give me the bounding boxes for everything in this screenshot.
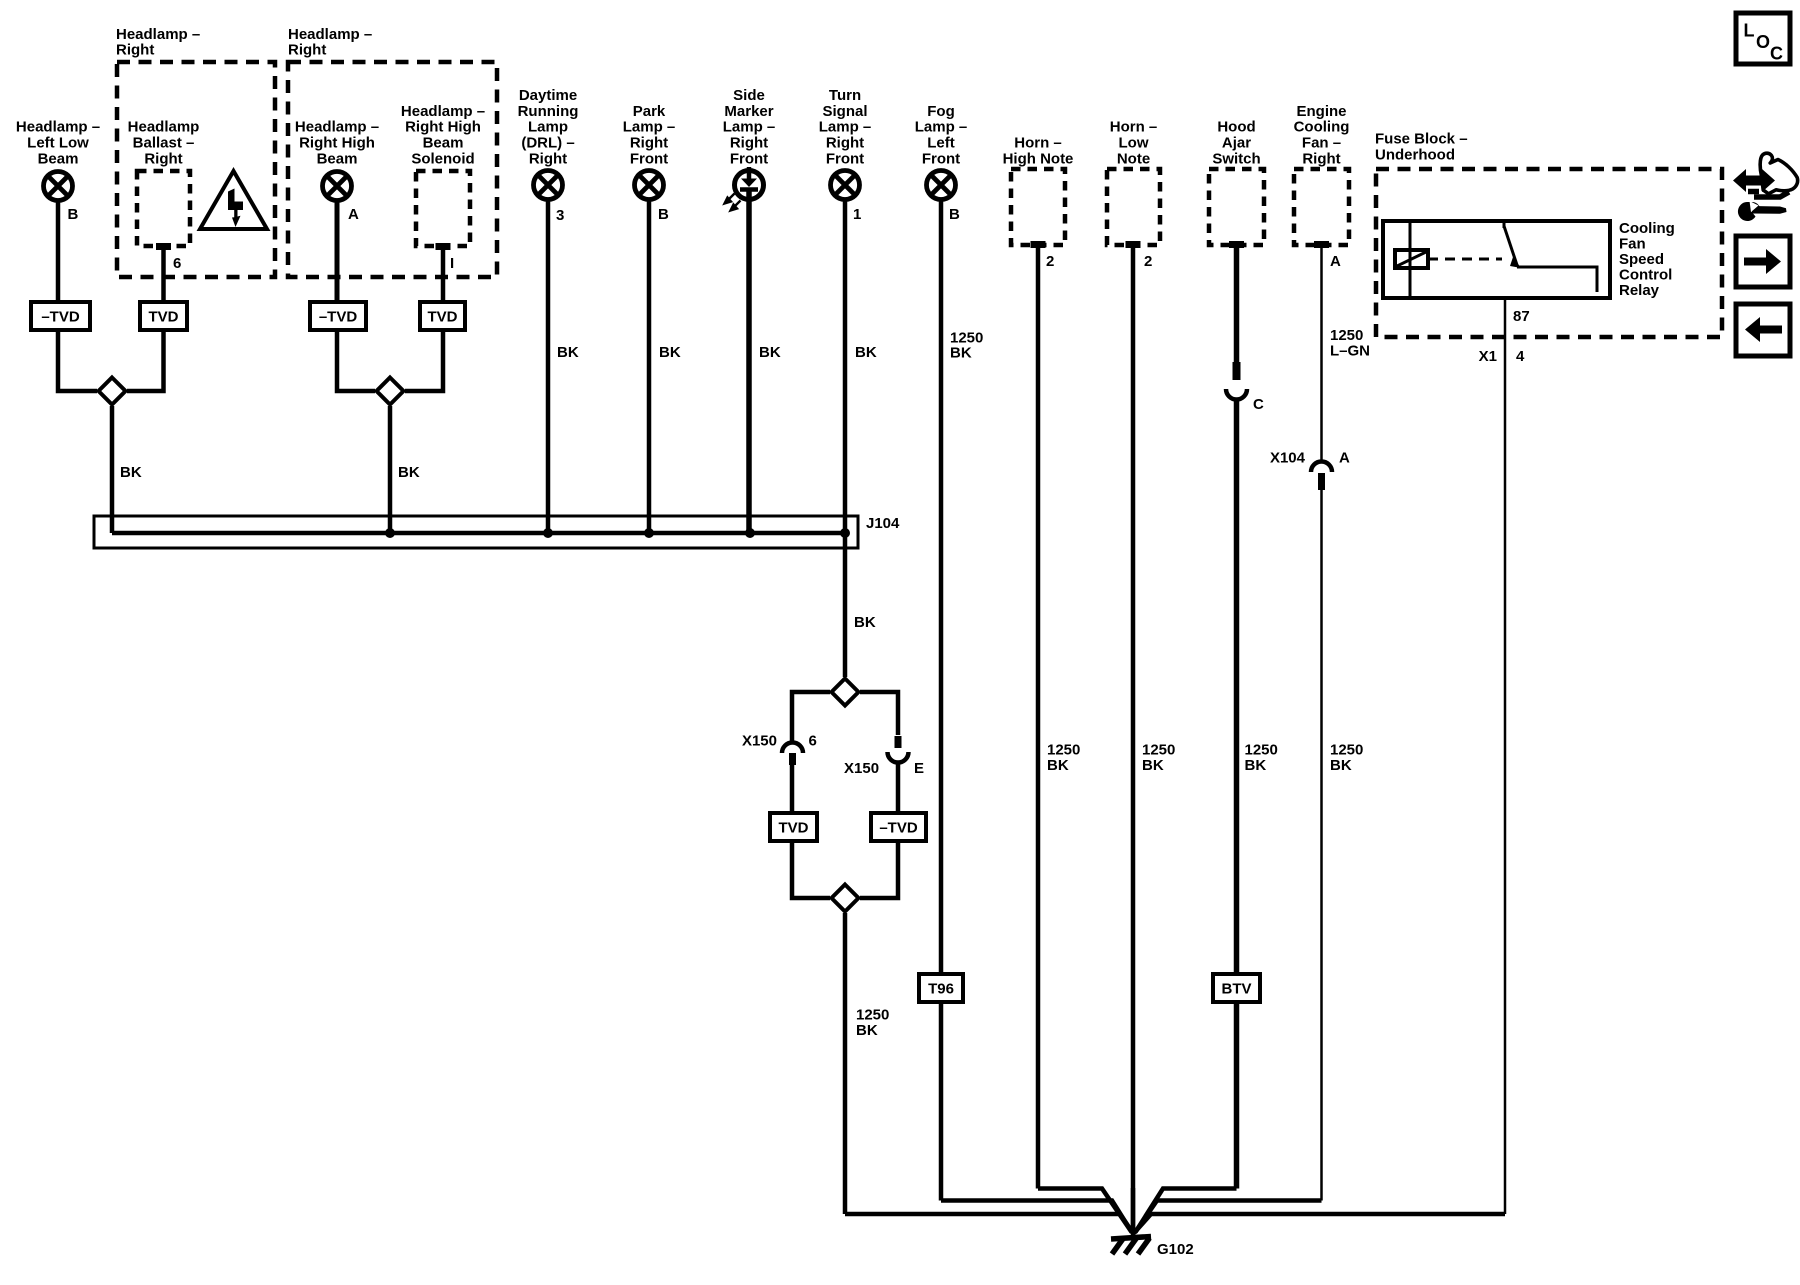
svg-text:(DRL) –: (DRL) – [521,135,574,152]
svg-text:TVD: TVD [779,820,809,837]
svg-text:Beam: Beam [317,151,358,168]
svg-text:Right: Right [288,42,326,59]
svg-text:Right: Right [529,151,567,168]
svg-text:4: 4 [1516,348,1525,365]
svg-text:Relay: Relay [1619,282,1660,299]
svg-text:1250: 1250 [1142,742,1175,759]
svg-text:Underhood: Underhood [1375,146,1455,163]
svg-text:Lamp –: Lamp – [819,119,872,136]
svg-text:Front: Front [922,151,960,168]
svg-text:C: C [1253,396,1264,413]
svg-text:A: A [348,206,359,223]
svg-text:–TVD: –TVD [41,309,80,326]
svg-text:BK: BK [854,614,876,631]
svg-text:Fog: Fog [927,103,955,120]
svg-text:Right: Right [630,135,668,152]
svg-text:A: A [1330,253,1341,270]
svg-text:1250: 1250 [856,1007,889,1024]
svg-text:–TVD: –TVD [319,309,358,326]
svg-text:Headlamp: Headlamp [128,119,200,136]
svg-text:TVD: TVD [428,309,458,326]
svg-text:Solenoid: Solenoid [411,151,474,168]
svg-text:Front: Front [730,151,768,168]
svg-text:Horn –: Horn – [1014,135,1062,152]
svg-text:Headlamp –: Headlamp – [288,26,372,43]
svg-text:BK: BK [1245,757,1267,774]
svg-text:1250: 1250 [1330,327,1363,344]
svg-text:Low: Low [1119,135,1149,152]
svg-text:Right: Right [1302,151,1340,168]
svg-text:Fan –: Fan – [1302,135,1341,152]
svg-text:Headlamp –: Headlamp – [116,26,200,43]
svg-text:B: B [949,206,960,223]
svg-text:Signal: Signal [822,103,867,120]
svg-text:BK: BK [1047,757,1069,774]
svg-text:Lamp –: Lamp – [723,119,776,136]
svg-text:T96: T96 [928,981,954,998]
svg-text:BK: BK [759,344,781,361]
svg-text:BK: BK [1330,757,1352,774]
svg-text:Right: Right [116,42,154,59]
svg-text:Marker: Marker [724,103,773,120]
svg-text:Hood: Hood [1217,119,1255,136]
svg-text:Side: Side [733,87,765,104]
svg-text:6: 6 [173,255,181,272]
svg-text:Right High: Right High [405,119,481,136]
svg-text:Beam: Beam [38,151,79,168]
svg-text:Turn: Turn [829,87,861,104]
svg-text:BTV: BTV [1222,981,1252,998]
svg-text:87: 87 [1513,308,1530,325]
svg-text:BK: BK [398,464,420,481]
svg-text:G102: G102 [1157,1241,1194,1258]
svg-text:Cooling: Cooling [1619,220,1675,237]
svg-text:Cooling: Cooling [1294,119,1350,136]
svg-text:2: 2 [1144,253,1152,270]
svg-text:Fan: Fan [1619,236,1646,253]
svg-text:L–GN: L–GN [1330,343,1370,360]
svg-text:Front: Front [826,151,864,168]
svg-text:BK: BK [557,344,579,361]
svg-text:Headlamp –: Headlamp – [401,103,485,120]
svg-text:BK: BK [855,344,877,361]
svg-text:Right: Right [826,135,864,152]
svg-text:O: O [1756,32,1770,52]
svg-text:Lamp –: Lamp – [915,119,968,136]
svg-text:Right: Right [730,135,768,152]
svg-text:Front: Front [630,151,668,168]
svg-text:Lamp: Lamp [528,119,568,136]
svg-text:Ajar: Ajar [1222,135,1251,152]
svg-text:C: C [1770,44,1783,64]
svg-text:Engine: Engine [1296,103,1346,120]
svg-text:X150: X150 [742,733,777,750]
svg-text:X150: X150 [844,760,879,777]
svg-text:1: 1 [853,206,861,223]
svg-text:BK: BK [120,464,142,481]
svg-text:Right: Right [144,151,182,168]
svg-text:E: E [914,760,924,777]
svg-text:Fuse Block –: Fuse Block – [1375,131,1468,148]
svg-text:3: 3 [556,207,564,224]
svg-text:A: A [1339,450,1350,467]
svg-text:Switch: Switch [1212,151,1260,168]
svg-text:Horn –: Horn – [1110,119,1158,136]
svg-text:1250: 1250 [1245,742,1278,759]
svg-text:I: I [450,255,454,272]
svg-text:Left: Left [927,135,955,152]
svg-text:Park: Park [633,103,666,120]
svg-text:BK: BK [856,1022,878,1039]
svg-text:1250: 1250 [1330,742,1363,759]
svg-text:Note: Note [1117,151,1150,168]
svg-text:6: 6 [809,733,817,750]
svg-text:B: B [68,206,79,223]
svg-text:X104: X104 [1270,450,1306,467]
svg-text:Ballast –: Ballast – [133,135,195,152]
svg-text:X1: X1 [1479,348,1497,365]
svg-text:Headlamp –: Headlamp – [295,119,379,136]
svg-text:J104: J104 [866,515,900,532]
svg-text:Right High: Right High [299,135,375,152]
svg-text:Daytime: Daytime [519,87,577,104]
svg-text:TVD: TVD [149,309,179,326]
svg-text:Headlamp –: Headlamp – [16,119,100,136]
svg-text:1250: 1250 [1047,742,1080,759]
svg-text:Speed: Speed [1619,251,1664,268]
svg-text:Beam: Beam [423,135,464,152]
svg-text:BK: BK [1142,757,1164,774]
svg-text:2: 2 [1046,253,1054,270]
svg-text:Left Low: Left Low [27,135,89,152]
svg-text:Lamp –: Lamp – [623,119,676,136]
svg-text:Running: Running [518,103,579,120]
svg-text:BK: BK [659,344,681,361]
svg-text:High Note: High Note [1003,151,1074,168]
svg-text:–TVD: –TVD [879,820,918,837]
svg-text:L: L [1744,21,1755,41]
svg-text:BK: BK [950,345,972,362]
svg-text:Control: Control [1619,267,1672,284]
svg-text:B: B [658,206,669,223]
